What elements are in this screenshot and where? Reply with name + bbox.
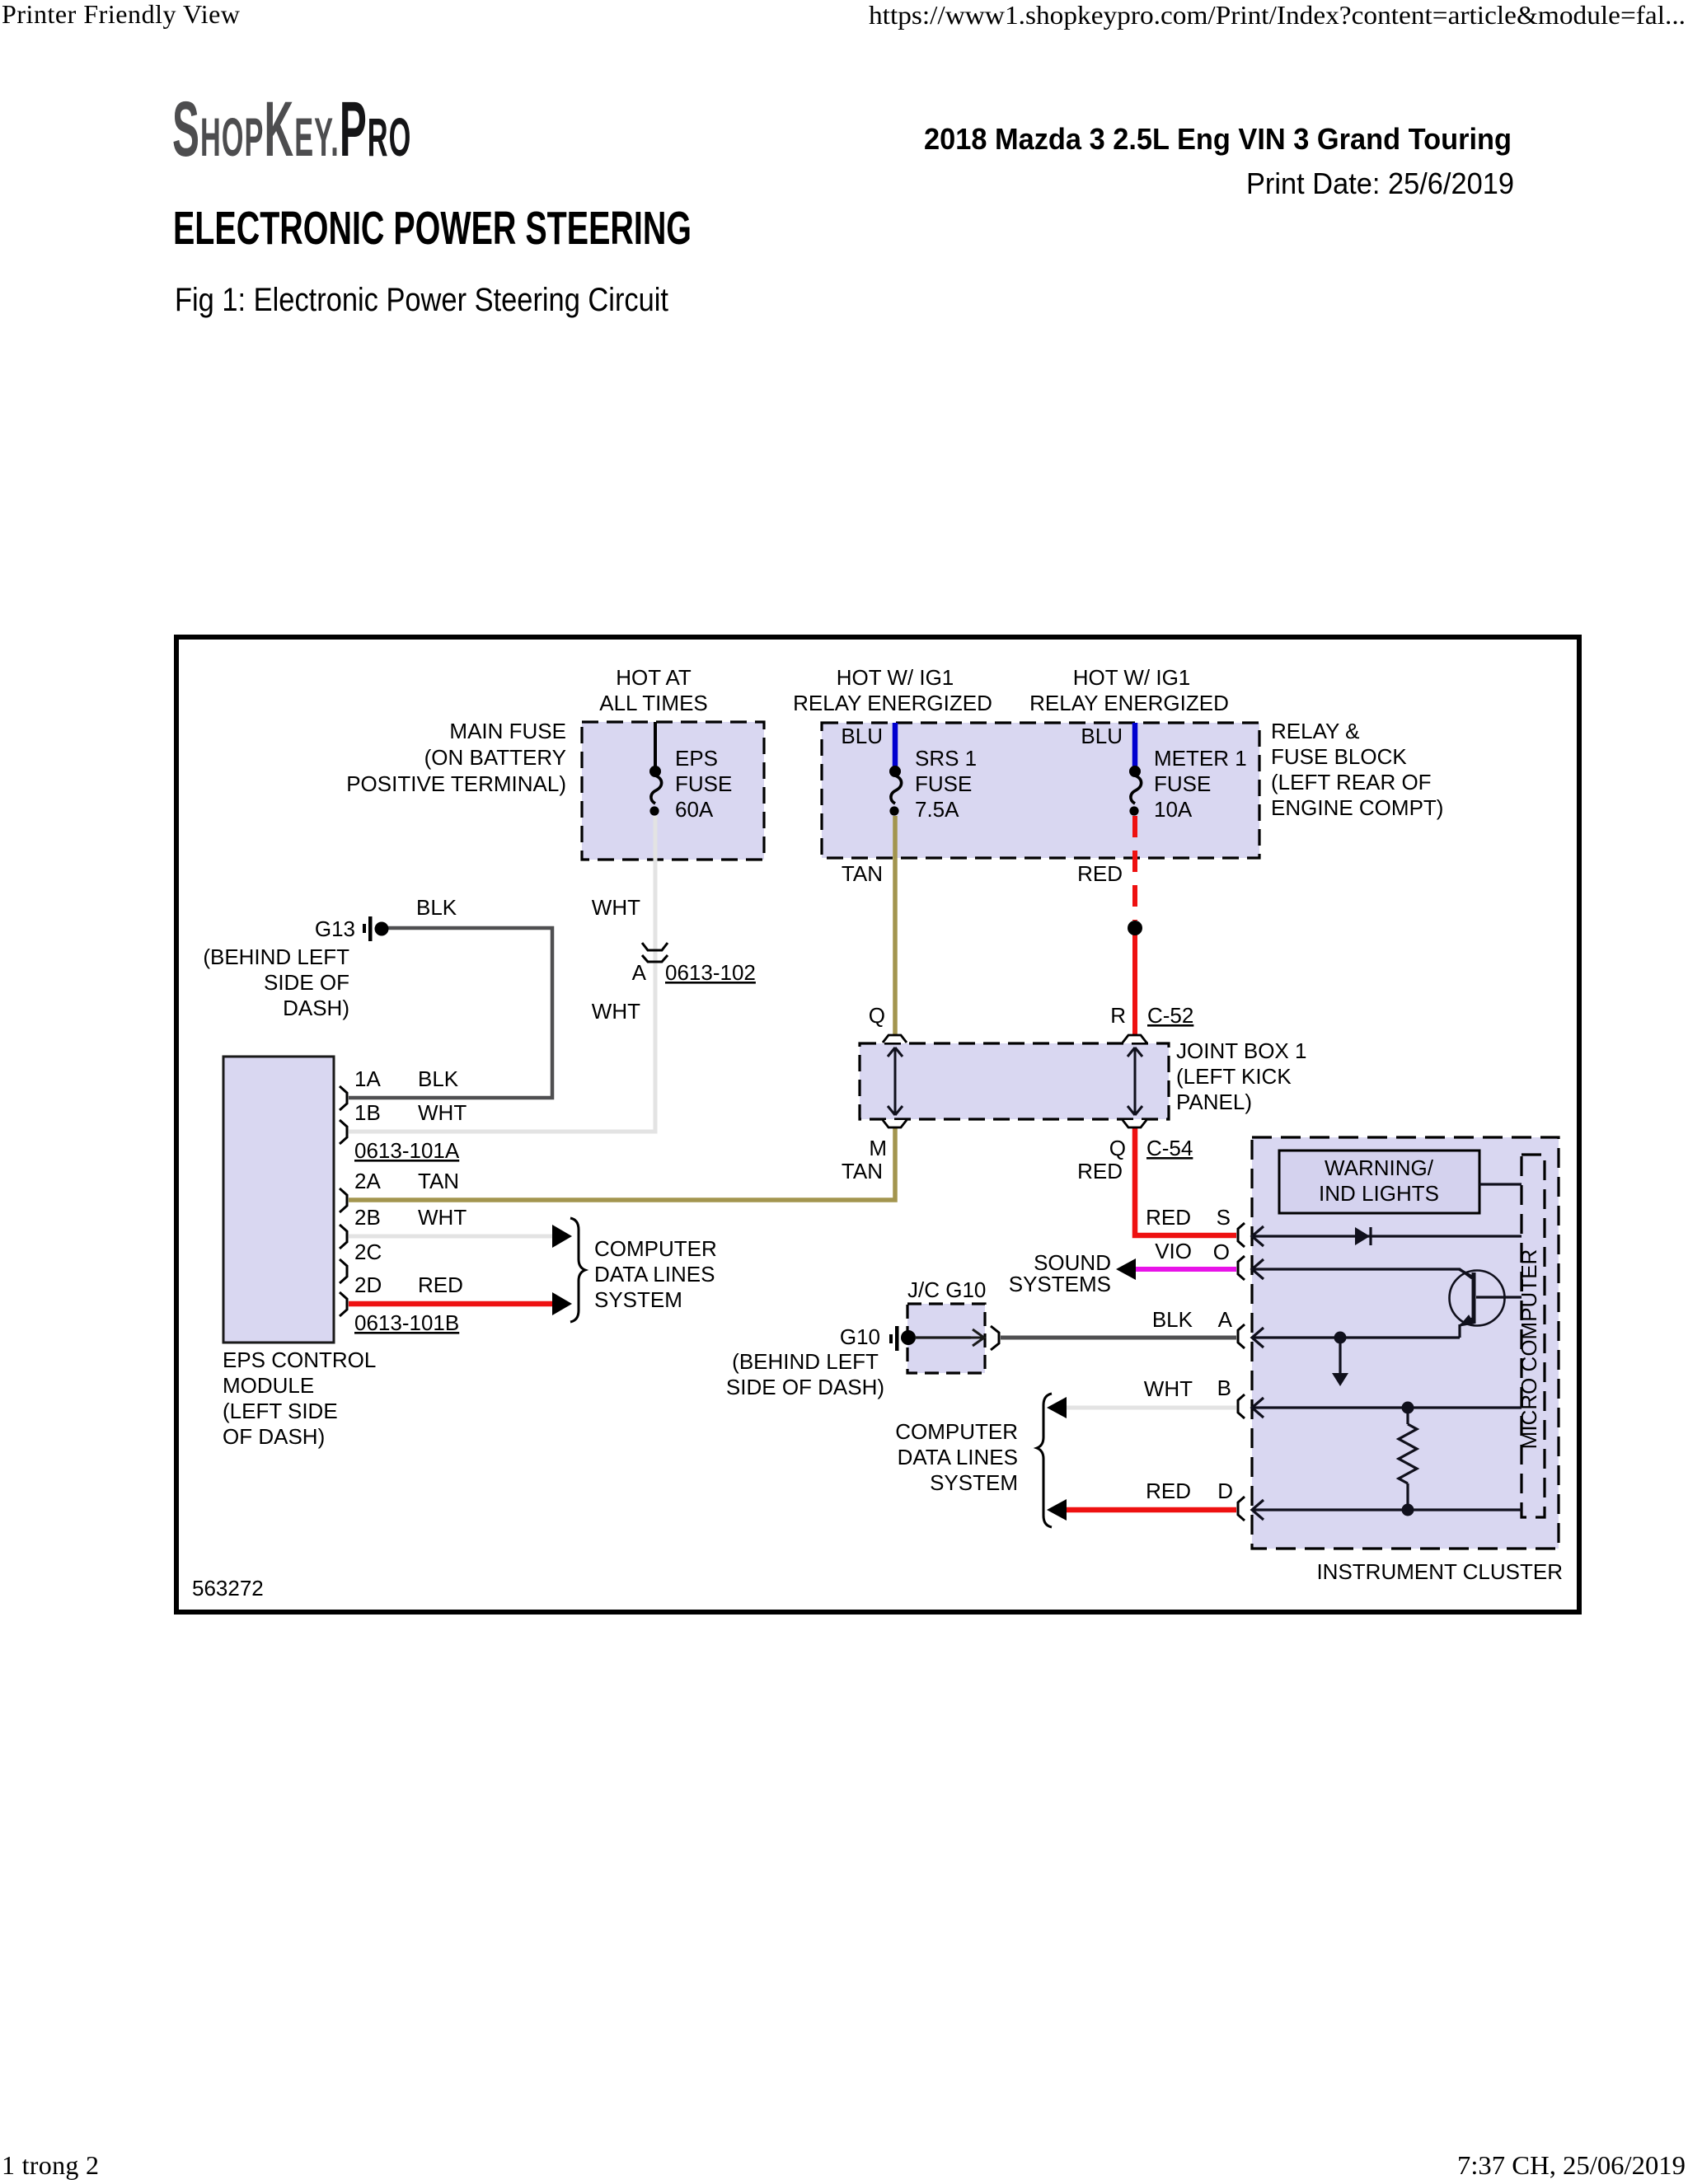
svg-text:TAN: TAN: [418, 1169, 459, 1193]
svg-text:M: M: [869, 1136, 887, 1160]
svg-text:G13: G13: [315, 916, 355, 941]
J/C G10 junction box: [907, 1304, 985, 1373]
wire: battery feed into EPS fuse (black): [654, 722, 657, 766]
svg-text:2C: 2C: [354, 1240, 382, 1264]
svg-text:S: S: [1217, 1205, 1231, 1230]
G10 junction output bracket: [991, 1326, 999, 1350]
cluster pin bracket S: [1238, 1223, 1245, 1247]
svg-text:MODULE: MODULE: [223, 1373, 314, 1398]
svg-text:IND LIGHTS: IND LIGHTS: [1319, 1181, 1439, 1206]
svg-text:RED: RED: [418, 1272, 463, 1297]
wire: RED solid from splice to C-52: [1132, 927, 1137, 1042]
data-line arrow from pin 2D (filled, right): [552, 1292, 572, 1315]
joint box connector bump Q / C-54 (bottom, RED): [1123, 1120, 1146, 1127]
inline connector A 0613-102: [642, 943, 668, 962]
svg-text:(LEFT REAR OF: (LEFT REAR OF: [1271, 770, 1432, 794]
diagram frame: [176, 637, 1579, 1612]
svg-text:(BEHIND LEFT: (BEHIND LEFT: [732, 1349, 879, 1374]
ground G10: [889, 1326, 916, 1351]
svg-text:WHT: WHT: [592, 999, 640, 1024]
svg-text:https://www1.shopkeypro.com/Pr: https://www1.shopkeypro.com/Print/Index?…: [869, 0, 1686, 30]
svg-text:0613-101B: 0613-101B: [354, 1310, 459, 1335]
data-line arrow to pin B (filled, left): [1047, 1397, 1067, 1418]
svg-text:0613-101A: 0613-101A: [354, 1138, 460, 1163]
svg-text:ELECTRONIC POWER STEERING: ELECTRONIC POWER STEERING: [173, 202, 692, 255]
svg-text:Q: Q: [869, 1003, 885, 1028]
svg-text:D: D: [1217, 1479, 1233, 1503]
svg-text:TAN: TAN: [842, 861, 883, 886]
svg-text:Q: Q: [1109, 1136, 1126, 1160]
cluster internal: transistor emitter drop to pin A line: [1458, 1324, 1461, 1338]
EPS control module box: [223, 1057, 334, 1343]
wire: RED dashed from METER 1 fuse to splice: [1132, 816, 1137, 921]
svg-text:RED: RED: [1146, 1205, 1191, 1230]
svg-text:FUSE: FUSE: [915, 771, 972, 796]
cluster internal: pin A line: [1252, 1336, 1460, 1338]
EPS module pin bracket 2C: [340, 1259, 347, 1283]
EPS module pin bracket 2D: [340, 1292, 347, 1316]
cluster internal: pin S line through diode to micro computer: [1252, 1235, 1522, 1237]
cluster internal: ground stub below pin A junction: [1339, 1338, 1341, 1374]
main fuse box (EPS FUSE 60A holder): [582, 722, 764, 860]
EPS module pin bracket 2B: [340, 1225, 347, 1249]
transistor in cluster: [1450, 1269, 1505, 1326]
svg-text:COMPUTER: COMPUTER: [895, 1419, 1018, 1444]
svg-text:OF DASH): OF DASH): [223, 1424, 325, 1449]
svg-text:A: A: [632, 960, 647, 985]
junction node on pin B line: [1402, 1402, 1414, 1414]
svg-text:HOT W/ IG1: HOT W/ IG1: [1073, 665, 1191, 690]
svg-text:0613-102: 0613-102: [665, 960, 756, 985]
svg-text:HOT W/ IG1: HOT W/ IG1: [837, 665, 954, 690]
svg-text:10A: 10A: [1154, 797, 1193, 822]
svg-text:2D: 2D: [354, 1272, 382, 1297]
svg-text:Printer Friendly View: Printer Friendly View: [2, 0, 240, 29]
svg-text:TAN: TAN: [842, 1159, 883, 1183]
svg-text:EPS: EPS: [675, 746, 718, 771]
cluster pin arrowhead D: [1252, 1500, 1264, 1520]
svg-text:FUSE: FUSE: [675, 771, 732, 796]
resistor in cluster: [1399, 1424, 1417, 1483]
wire: BLK from G10 junction to cluster pin A: [915, 1336, 971, 1338]
wire: BLK from G13 ground to pin 1A: [349, 928, 552, 1098]
wire: WHT from data-line arrow to cluster pin B: [1066, 1406, 1236, 1410]
svg-text:RED: RED: [1077, 861, 1123, 886]
wire: RED from data-line arrow to cluster pin D: [1066, 1507, 1236, 1513]
svg-text:Fig 1: Electronic Power Steeri: Fig 1: Electronic Power Steering Circuit: [175, 282, 668, 318]
svg-text:FUSE: FUSE: [1154, 771, 1211, 796]
junction node on pin D line: [1402, 1504, 1414, 1516]
svg-text:SIDE OF: SIDE OF: [264, 970, 349, 995]
cluster pin arrowhead S: [1252, 1226, 1264, 1246]
svg-text:R: R: [1110, 1003, 1126, 1028]
joint box connector bump Q (top, TAN): [883, 1035, 907, 1043]
svg-text:BLK: BLK: [1152, 1307, 1193, 1332]
svg-text:SYSTEMS: SYSTEMS: [1009, 1272, 1111, 1296]
cluster pin bracket D: [1238, 1497, 1245, 1521]
svg-text:COMPUTER: COMPUTER: [594, 1236, 717, 1261]
svg-text:SYSTEM: SYSTEM: [594, 1287, 682, 1312]
joint box connector bump R / C-52 (top, RED): [1123, 1035, 1146, 1043]
svg-text:2018 Mazda 3 2.5L Eng VIN 3 Gr: 2018 Mazda 3 2.5L Eng VIN 3 Grand Tourin…: [924, 122, 1512, 156]
svg-text:G10: G10: [840, 1324, 880, 1349]
svg-text:BLU: BLU: [841, 724, 883, 748]
brace for computer data lines (module side): [570, 1218, 585, 1322]
svg-text:VIO: VIO: [1155, 1239, 1192, 1263]
svg-text:1 trong 2: 1 trong 2: [2, 2150, 99, 2180]
svg-text:2A: 2A: [354, 1169, 381, 1193]
splice node on RED wire: [1128, 921, 1142, 935]
svg-text:WHT: WHT: [1144, 1376, 1193, 1401]
svg-text:METER 1: METER 1: [1154, 746, 1247, 771]
svg-text:EPS CONTROL: EPS CONTROL: [223, 1347, 376, 1372]
svg-text:MICRO COMPUTER: MICRO COMPUTER: [1517, 1249, 1541, 1450]
svg-text:WHT: WHT: [418, 1100, 467, 1125]
svg-text:RELAY &: RELAY &: [1271, 719, 1359, 743]
joint box pass-through arrow (RED side): [1128, 1047, 1142, 1115]
cluster internal: pin D line to micro computer: [1252, 1508, 1522, 1511]
svg-text:WHT: WHT: [418, 1205, 467, 1230]
svg-text:FUSE BLOCK: FUSE BLOCK: [1271, 744, 1407, 769]
wire: WHT from pin 2B to data-line arrow: [349, 1235, 554, 1239]
joint box connector bump M (bottom, TAN): [883, 1120, 907, 1127]
EPS module pin bracket 1B: [340, 1120, 347, 1144]
ShopKey.Pro logo: [172, 86, 411, 174]
svg-text:JOINT BOX 1: JOINT BOX 1: [1176, 1038, 1306, 1063]
svg-text:(BEHIND LEFT: (BEHIND LEFT: [203, 944, 349, 969]
svg-text:RED: RED: [1146, 1479, 1191, 1503]
svg-text:BLK: BLK: [418, 1066, 459, 1091]
wire: RED from pin 2D to data-line arrow: [349, 1301, 554, 1307]
svg-text:1B: 1B: [354, 1100, 381, 1125]
svg-text:PANEL): PANEL): [1176, 1090, 1252, 1114]
wire: BLU feed into METER 1 fuse: [1132, 723, 1138, 766]
svg-text:B: B: [1217, 1376, 1231, 1400]
svg-text:C-54: C-54: [1146, 1136, 1193, 1160]
joint box 1: [860, 1043, 1169, 1119]
svg-text:SIDE OF DASH): SIDE OF DASH): [726, 1375, 884, 1399]
junction node on pin A line: [1334, 1332, 1347, 1344]
wire: WHT from EPS fuse down to connector A and on to pin 1B: [349, 816, 655, 1132]
svg-text:2B: 2B: [354, 1205, 381, 1230]
cluster internal: pin B line to micro computer: [1252, 1406, 1522, 1408]
diode in cluster S line: [1355, 1227, 1371, 1245]
cluster pin bracket B: [1238, 1394, 1245, 1418]
svg-text:DATA LINES: DATA LINES: [898, 1445, 1018, 1469]
warning / indicator lights box: [1279, 1151, 1479, 1213]
cluster internal: resistor leads: [1406, 1408, 1409, 1510]
cluster pin bracket O: [1238, 1256, 1245, 1280]
fuse METER 1 10A: [1129, 766, 1142, 816]
svg-text:DASH): DASH): [283, 996, 349, 1020]
wire: BLU feed into SRS 1 fuse: [893, 723, 898, 766]
cluster internal: transistor base lead from micro computer: [1476, 1296, 1522, 1298]
svg-text:BLU: BLU: [1081, 724, 1123, 748]
G10 junction arrow (open, right): [915, 1329, 984, 1346]
svg-text:Print Date: 25/6/2019: Print Date: 25/6/2019: [1246, 166, 1514, 200]
svg-text:HOT AT: HOT AT: [616, 665, 692, 690]
svg-text:RELAY ENERGIZED: RELAY ENERGIZED: [1029, 691, 1229, 715]
ground arrow below pin A junction (filled, down): [1332, 1373, 1348, 1386]
micro computer dashed box: [1522, 1155, 1545, 1517]
brace for computer data lines (cluster side): [1037, 1394, 1052, 1527]
cluster internal: pin O line to transistor collector: [1252, 1269, 1472, 1278]
svg-text:SHOPKEY.PRO: SHOPKEY.PRO: [172, 86, 411, 174]
svg-text:(LEFT KICK: (LEFT KICK: [1176, 1064, 1292, 1089]
joint box pass-through arrow (TAN side): [888, 1047, 903, 1115]
svg-text:1A: 1A: [354, 1066, 381, 1091]
svg-text:(LEFT SIDE: (LEFT SIDE: [223, 1399, 338, 1423]
EPS module pin bracket 1A: [340, 1086, 347, 1110]
svg-text:RELAY ENERGIZED: RELAY ENERGIZED: [793, 691, 992, 715]
svg-text:WHT: WHT: [592, 895, 640, 920]
EPS module pin bracket 2A: [340, 1188, 347, 1212]
svg-text:(ON BATTERY: (ON BATTERY: [424, 745, 566, 770]
cluster pin bracket A: [1238, 1324, 1245, 1348]
svg-text:SYSTEM: SYSTEM: [930, 1470, 1018, 1495]
relay & fuse block box: [822, 723, 1259, 858]
svg-text:RED: RED: [1077, 1159, 1123, 1183]
cluster internal: warning lights box lead to micro computer: [1479, 1183, 1522, 1185]
svg-text:563272: 563272: [192, 1576, 264, 1601]
svg-text:A: A: [1218, 1307, 1233, 1332]
instrument cluster box: [1252, 1137, 1559, 1549]
svg-text:J/C G10: J/C G10: [907, 1277, 986, 1302]
svg-text:POSITIVE TERMINAL): POSITIVE TERMINAL): [346, 771, 566, 796]
svg-text:MAIN FUSE: MAIN FUSE: [449, 719, 566, 743]
sound systems arrow (filled, left): [1116, 1258, 1136, 1280]
data-line arrow to pin D (filled, left): [1047, 1499, 1067, 1521]
wire: TAN from joint box M down and left to pin 2A: [349, 1121, 895, 1200]
cluster pin arrowhead O: [1252, 1259, 1264, 1279]
wire: VIO from cluster pin O to sound systems: [1136, 1267, 1236, 1272]
svg-text:SRS 1: SRS 1: [915, 746, 977, 771]
svg-text:C-52: C-52: [1147, 1003, 1193, 1028]
wire: TAN from SRS 1 fuse to joint box Q: [893, 816, 898, 1042]
cluster pin arrowhead B: [1252, 1398, 1264, 1418]
svg-text:60A: 60A: [675, 797, 714, 822]
svg-text:INSTRUMENT CLUSTER: INSTRUMENT CLUSTER: [1316, 1559, 1563, 1584]
cluster pin arrowhead A: [1252, 1328, 1264, 1347]
wire: RED from C-54 down and right to cluster pin S: [1135, 1121, 1236, 1235]
svg-text:ALL TIMES: ALL TIMES: [599, 691, 708, 715]
ground G13: [363, 916, 389, 941]
svg-text:BLK: BLK: [416, 895, 457, 920]
svg-text:WARNING/: WARNING/: [1325, 1155, 1434, 1180]
svg-text:7.5A: 7.5A: [915, 797, 959, 822]
data-line arrow from pin 2B (filled, right): [552, 1225, 572, 1248]
svg-text:ENGINE COMPT): ENGINE COMPT): [1271, 795, 1443, 820]
fuse SRS 1 7.5A: [889, 766, 902, 816]
svg-text:DATA LINES: DATA LINES: [594, 1262, 715, 1286]
fuse EPS 60A: [649, 766, 662, 816]
svg-text:7:37 CH, 25/06/2019: 7:37 CH, 25/06/2019: [1457, 2150, 1686, 2180]
svg-text:O: O: [1213, 1240, 1230, 1264]
